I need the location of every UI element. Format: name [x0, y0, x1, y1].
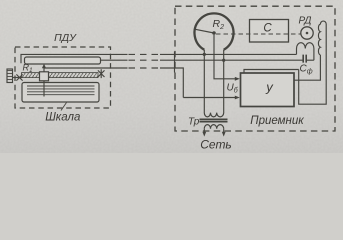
wire above amplifier [244, 70, 299, 74]
wire 2 cable dashes [129, 59, 161, 61]
dashed enclosure Приемник (receiver) [175, 6, 335, 131]
lead screw (hatched) [22, 73, 99, 78]
R2 center dot [212, 31, 216, 35]
R2 right lead down to wire 2 and transformer [223, 50, 225, 113]
motor center dot [306, 32, 309, 35]
svg-text:РД: РД [299, 16, 312, 27]
transformer core [200, 119, 228, 121]
potentiometer R2 circle [194, 13, 233, 49]
svg-text:Тр: Тр [188, 117, 200, 128]
wire from Сф right plate [306, 59, 314, 61]
wire 2 right section to filter capacitor [160, 59, 303, 61]
svg-text:Сеть: Сеть [200, 138, 232, 152]
paper background [0, 0, 343, 153]
capacitor block C [250, 20, 289, 43]
scale box [22, 83, 99, 103]
amplifier output wire top [294, 55, 320, 80]
wire 1 right section [160, 53, 297, 55]
amplifier output wire bottom (to coil top) [299, 24, 327, 104]
svg-text:Приемник: Приемник [250, 115, 304, 127]
shaft wire [13, 77, 23, 79]
arrow into amplifier (U6 input) [235, 77, 240, 81]
wire 3 right section turning down [160, 68, 183, 98]
wire 2 (middle line of cable) [101, 59, 128, 61]
mains lead left with arrow [203, 129, 205, 133]
scale lines [27, 86, 95, 95]
motor circle РД [301, 27, 313, 39]
wire 3 (lower line of cable) [44, 67, 128, 69]
svg-text:Шкала: Шкала [45, 112, 80, 124]
node dot wire2/R2 [222, 59, 225, 62]
node dot wire1/R2 [203, 53, 206, 56]
transformer secondary winding [204, 125, 223, 129]
cable entry stroke [174, 52, 176, 73]
R2 left lead down to wire 1 and transformer [203, 50, 205, 113]
svg-text:С: С [263, 23, 272, 35]
wire 1 (upper line of cable) [21, 54, 128, 63]
R2 wiper lead down [214, 35, 236, 79]
wiper slider block [40, 72, 49, 81]
wire 3 cable dashes [129, 67, 161, 69]
R2 wiper [195, 29, 214, 33]
mains lead right with arrow [223, 129, 225, 133]
resistor R1 bar [25, 57, 101, 64]
paper grain [0, 0, 343, 153]
lower input wire to amplifier [183, 97, 236, 99]
knob (hand crank on panel) [7, 69, 13, 83]
coil winding at right edge [318, 21, 326, 55]
motor control winding (two bumps) [297, 43, 314, 61]
filter capacitor Сф plates [303, 55, 306, 63]
wire 1 cable dashes [129, 53, 161, 55]
pointer to scale [43, 81, 45, 97]
transformer Тр primary winding [204, 113, 223, 117]
bearing X left [16, 74, 22, 80]
svg-text:ПДУ: ПДУ [54, 32, 77, 44]
dashed enclosure ПДУ [15, 47, 111, 108]
mechanical link (dashed shaft) R2-C-motor [216, 33, 301, 35]
amplifier box У [241, 73, 295, 107]
bearing X right [98, 69, 105, 78]
leader line [61, 103, 67, 111]
arrow lower input [235, 96, 240, 100]
wiper arrow [43, 66, 45, 72]
